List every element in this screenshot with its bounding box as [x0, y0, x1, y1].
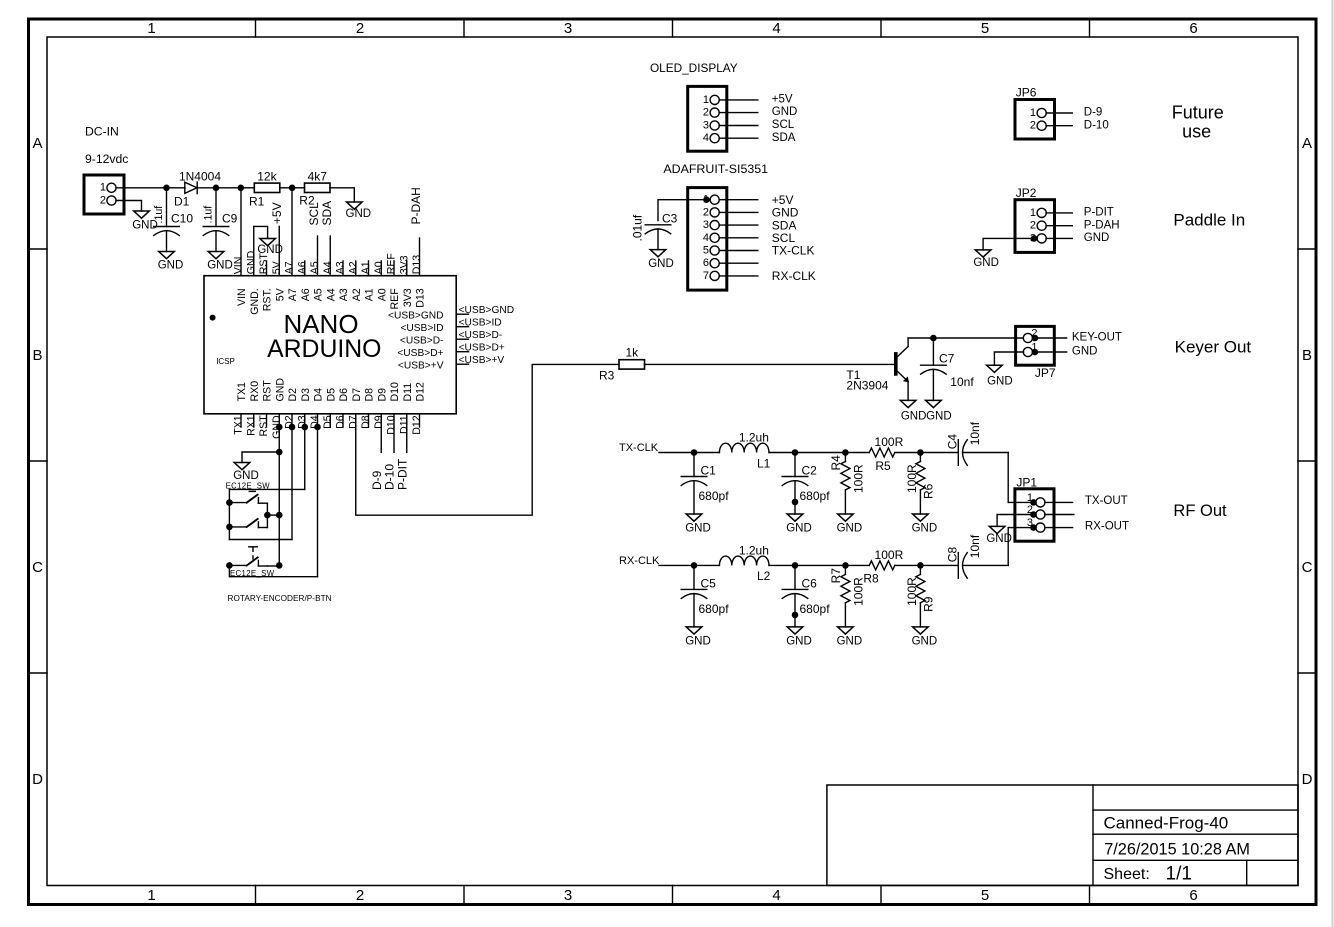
wire nano top pin D13	[411, 238, 427, 308]
svg-text:<USB>ID: <USB>ID	[459, 318, 502, 329]
svg-text:GND: GND	[912, 635, 938, 647]
wire phase A contact down	[266, 503, 268, 515]
connector DC-IN	[84, 125, 128, 215]
text Future use	[1172, 102, 1224, 141]
connector JP6	[1015, 86, 1055, 140]
svg-text:7: 7	[703, 270, 709, 282]
svg-text:680pf: 680pf	[699, 602, 730, 616]
svg-text:L1: L1	[757, 456, 771, 470]
svg-text:D4: D4	[313, 388, 325, 402]
svg-text:A7: A7	[284, 261, 296, 274]
svg-text:RX0: RX0	[249, 381, 261, 402]
svg-text:A4: A4	[322, 261, 334, 274]
svg-text:1/1: 1/1	[1166, 863, 1192, 884]
wire JP1 pin3 from C8	[1008, 524, 1037, 531]
wire OLED pin +5V	[719, 94, 793, 106]
wire SI5351 pin 6	[719, 262, 758, 264]
svg-text:GND: GND	[685, 523, 711, 535]
wire net label D-9	[370, 427, 384, 490]
wire encoder top horizontal	[229, 488, 304, 490]
svg-text:ROTARY-ENCODER/P-BTN: ROTARY-ENCODER/P-BTN	[228, 594, 332, 603]
svg-text:GND: GND	[786, 523, 812, 535]
wire nano top pin GND.	[245, 226, 261, 314]
wire JP2 pin P-DAH	[1046, 219, 1119, 231]
svg-text:C6: C6	[802, 576, 818, 590]
svg-text:RST: RST	[262, 380, 274, 402]
svg-text:D9: D9	[376, 388, 388, 402]
svg-text:<USB>GND: <USB>GND	[388, 310, 443, 321]
wire nano top pin VIN	[233, 188, 249, 306]
ground at JP7 pin1	[987, 365, 1013, 387]
svg-text:GND: GND	[786, 635, 812, 647]
svg-text:D13: D13	[411, 255, 423, 275]
svg-text:<USB>D-: <USB>D-	[459, 330, 503, 341]
svg-text:A0: A0	[376, 288, 388, 301]
svg-text:GND: GND	[901, 410, 927, 422]
wire nano top pin RST	[258, 253, 274, 312]
wire GND branch to ground symbol	[242, 452, 279, 463]
wire D2 net vertical	[291, 427, 293, 540]
wire nano USB pin USBGND	[388, 305, 514, 321]
wire push button to GND net	[267, 562, 282, 569]
svg-text:R5: R5	[875, 459, 891, 473]
svg-text:D-9: D-9	[1084, 107, 1103, 119]
svg-text:D12: D12	[411, 415, 423, 435]
node junction R4 tap	[842, 449, 849, 456]
wire encoder bottom horizontal to D2	[229, 539, 292, 541]
svg-text:R3: R3	[599, 369, 615, 383]
wire encoder left vertical	[228, 489, 230, 539]
svg-text:1: 1	[100, 182, 106, 194]
svg-text:SCL: SCL	[772, 119, 795, 131]
svg-text:10nf: 10nf	[968, 534, 982, 558]
wire SI5351 pin TX-CLK	[719, 244, 814, 258]
svg-text:2: 2	[356, 20, 364, 37]
wire SI5351 pin SDA	[719, 218, 796, 232]
svg-text:5: 5	[981, 20, 989, 37]
svg-text:100R: 100R	[852, 464, 866, 493]
svg-text:A: A	[32, 135, 42, 152]
svg-text:A0: A0	[373, 261, 385, 274]
title block	[827, 785, 1298, 885]
connector SV2 ADAFRUIT-SI5351	[688, 188, 727, 291]
svg-text:A6: A6	[296, 261, 308, 274]
svg-text:D1: D1	[174, 195, 190, 209]
svg-text:D7: D7	[347, 415, 359, 429]
net label SCL	[307, 202, 321, 226]
svg-text:NANO: NANO	[283, 309, 358, 339]
svg-text:6: 6	[1189, 20, 1197, 37]
capacitor C3 .01uf	[631, 211, 678, 249]
svg-text:100R: 100R	[875, 435, 904, 449]
svg-text:C10: C10	[171, 212, 193, 226]
wire SI5351 pin GND	[719, 206, 799, 220]
svg-text:JP2: JP2	[1016, 186, 1037, 200]
svg-text:R9: R9	[921, 596, 935, 612]
svg-text:C9: C9	[222, 212, 238, 226]
wire net label P-DIT	[395, 427, 409, 490]
wire nano bottom pin D3	[296, 388, 312, 429]
capacitor C5 680pf	[681, 565, 729, 627]
ground below nano	[233, 463, 259, 483]
svg-text:C5: C5	[701, 576, 717, 590]
svg-text:<USB>GND: <USB>GND	[459, 305, 514, 316]
svg-text:5V: 5V	[271, 260, 283, 274]
wire nano top pin A7	[284, 188, 300, 301]
svg-text:C: C	[1302, 559, 1313, 576]
wire D4 net vertical	[317, 427, 319, 577]
ground at JP2 pin3	[973, 250, 999, 269]
wire nano bottom pin D12	[411, 382, 427, 435]
node junction C10 tap	[163, 185, 170, 192]
resistor R6 100R	[905, 453, 935, 515]
capacitor C10 .1uf	[153, 188, 193, 252]
svg-text:C7: C7	[939, 352, 955, 366]
wire JP1 pin1 TX-OUT	[1045, 495, 1128, 507]
text TX-CLK	[619, 442, 659, 454]
svg-text:D5: D5	[322, 415, 334, 429]
svg-text:Keyer Out: Keyer Out	[1175, 337, 1252, 356]
wire nano top pin A5	[309, 236, 325, 301]
wire C4 to JP1 pin1	[1007, 453, 1009, 503]
svg-text:R1: R1	[249, 195, 265, 209]
capacitor C6 680pf	[782, 565, 830, 627]
svg-text:D-10: D-10	[1084, 119, 1109, 131]
svg-text:C3: C3	[662, 211, 678, 225]
svg-text:GND: GND	[257, 244, 283, 256]
svg-text:2: 2	[703, 206, 709, 218]
ground at nano GND. pin	[254, 226, 283, 256]
wire SI5351 pin1 to C3	[658, 196, 710, 220]
svg-text:D: D	[32, 771, 43, 788]
svg-text:<USB>D-: <USB>D-	[400, 335, 444, 346]
svg-text:A4: A4	[325, 288, 337, 301]
ground at DC-IN pin2	[132, 211, 158, 232]
svg-text:1: 1	[147, 887, 155, 904]
capacitor C1 680pf	[681, 453, 729, 515]
svg-text:1: 1	[147, 20, 155, 37]
wire nano bottom pin RX1	[245, 381, 261, 436]
svg-text:<USB>D+: <USB>D+	[459, 343, 505, 354]
svg-text:A2: A2	[351, 288, 363, 301]
node junctions below nano	[276, 424, 321, 431]
svg-text:100R: 100R	[875, 548, 904, 562]
svg-text:D6: D6	[338, 388, 350, 402]
wire SI5351 pin RX-CLK	[719, 269, 816, 283]
svg-text:GND.: GND.	[245, 248, 257, 274]
wire JP2 pin3 to ground	[983, 235, 1037, 250]
switch encoder push button	[226, 547, 267, 569]
wire JP1 pin2 to ground	[997, 511, 1037, 526]
wire nano top pin A4	[322, 236, 338, 301]
svg-text:C1: C1	[701, 463, 717, 477]
svg-text:2: 2	[1030, 220, 1036, 232]
wire nano bottom pin D5	[322, 388, 338, 429]
svg-text:R6: R6	[921, 483, 935, 499]
svg-text:D5: D5	[325, 388, 337, 402]
resistor R8 100R	[863, 548, 903, 586]
svg-text:C8: C8	[946, 547, 960, 563]
wire diode to C9 node	[197, 187, 216, 189]
svg-text:use: use	[1182, 122, 1211, 142]
svg-text:GND: GND	[926, 410, 952, 422]
text OLED_DISPLAY	[650, 61, 738, 75]
svg-text:A3: A3	[335, 261, 347, 274]
wire D3 net vertical	[304, 427, 306, 489]
node junction JP7 pin1	[1032, 349, 1039, 356]
wire GND net vertical	[278, 427, 280, 565]
wire OLED pin SDA	[719, 132, 796, 144]
wire nano top pin A0	[373, 261, 389, 301]
svg-text:REF: REF	[386, 253, 398, 275]
op-amp U1 ARDUINO NANO	[204, 276, 456, 414]
ground below C2	[786, 514, 812, 535]
svg-text:P-DAH: P-DAH	[409, 187, 423, 224]
svg-text:D7: D7	[351, 388, 363, 402]
svg-text:D12: D12	[415, 382, 427, 402]
text RF Out	[1173, 502, 1227, 520]
text Paddle In	[1173, 211, 1245, 230]
svg-text:Paddle In: Paddle In	[1173, 211, 1245, 230]
resistor R5 100R	[869, 435, 903, 473]
ground at JP1 pin2	[986, 526, 1012, 545]
svg-text:<USB>+V: <USB>+V	[398, 360, 444, 371]
net label +5V	[270, 202, 284, 224]
ground at T1 emitter	[900, 400, 926, 422]
svg-text:<USB>+V: <USB>+V	[459, 355, 505, 366]
svg-text:D6: D6	[335, 415, 347, 429]
svg-text:100R: 100R	[905, 464, 919, 493]
svg-text:D13: D13	[415, 288, 427, 308]
svg-text:ICSP: ICSP	[216, 357, 235, 366]
wire nano top pin A2	[347, 261, 363, 301]
switch encoder phase A	[226, 491, 267, 506]
wire D7 to keyer R3	[356, 364, 619, 515]
resistor R4 100R	[829, 453, 866, 515]
svg-text:RX-CLK: RX-CLK	[772, 269, 816, 283]
capacitor C2 680pf	[782, 453, 830, 515]
ground below R9	[912, 627, 938, 648]
ground below C1	[685, 514, 711, 535]
resistor R9 100R	[905, 565, 935, 627]
svg-text:ADAFRUIT-SI5351: ADAFRUIT-SI5351	[663, 162, 768, 176]
wire RX-CLK line	[659, 564, 958, 566]
svg-text:ARDUINO: ARDUINO	[267, 336, 381, 363]
wire JP1 pin1 from C4	[1008, 499, 1037, 506]
wire rail to diode	[167, 187, 186, 189]
svg-text:GND: GND	[274, 378, 286, 402]
wire C9 node to VIN node	[216, 187, 241, 189]
svg-text:3: 3	[564, 887, 572, 904]
svg-text:GND: GND	[772, 106, 798, 118]
ground below C3	[648, 250, 674, 270]
svg-text:6: 6	[703, 257, 709, 269]
svg-text:RST.: RST.	[262, 288, 274, 311]
wire JP7 pin1 GND label	[1035, 346, 1098, 358]
resistor R3 1k	[599, 346, 645, 383]
capacitor C7 10nf	[921, 338, 975, 400]
svg-text:GND: GND	[1072, 346, 1098, 358]
node junction VIN tap	[238, 185, 245, 192]
svg-text:EC12E_SW: EC12E_SW	[230, 569, 275, 578]
svg-text:680pf: 680pf	[800, 602, 831, 616]
svg-text:GND: GND	[648, 258, 674, 270]
svg-text:P-DIT: P-DIT	[395, 458, 409, 490]
svg-text:C2: C2	[802, 463, 818, 477]
svg-text:A7: A7	[287, 288, 299, 301]
svg-text:A5: A5	[313, 288, 325, 301]
svg-text:P-DAH: P-DAH	[1084, 219, 1120, 231]
switch encoder phase B	[226, 518, 267, 530]
wire nano top pin A1	[360, 261, 376, 301]
inductor L2 1.2uh	[719, 544, 770, 584]
svg-text:RX-OUT: RX-OUT	[1085, 521, 1129, 533]
wire JP7 pin1 to ground	[994, 352, 1023, 365]
svg-text:1: 1	[1030, 107, 1036, 119]
svg-text:10nf: 10nf	[950, 375, 974, 389]
svg-text:4: 4	[703, 132, 709, 144]
svg-text:REF: REF	[389, 288, 401, 310]
node junction R9 tap	[917, 562, 924, 569]
svg-text:.1uf: .1uf	[203, 206, 215, 224]
svg-text:R4: R4	[829, 455, 843, 471]
wire JP1 pin2 right	[1045, 514, 1074, 516]
svg-text:D8: D8	[360, 415, 372, 429]
capacitor C8 10nf	[946, 534, 1009, 578]
svg-text:6: 6	[1189, 887, 1197, 904]
svg-text:JP6: JP6	[1016, 86, 1037, 100]
svg-text:A1: A1	[360, 261, 372, 274]
svg-text:.1uf: .1uf	[153, 206, 165, 224]
svg-text:100R: 100R	[905, 577, 919, 606]
node junction C5 tap	[691, 562, 698, 569]
wire nano bottom pin RST	[258, 380, 274, 437]
text ROTARY-ENCODER/P-BTN	[228, 594, 332, 603]
diode D1 1N4004	[174, 170, 221, 209]
svg-text:TX1: TX1	[236, 382, 248, 402]
svg-text:RST: RST	[258, 415, 270, 437]
svg-text:+5V: +5V	[772, 94, 793, 106]
svg-text:3: 3	[564, 20, 572, 37]
svg-text:+5V: +5V	[270, 202, 284, 224]
svg-text:VIN: VIN	[236, 288, 248, 306]
wire nano top pin REF	[386, 253, 402, 310]
svg-text:JP1: JP1	[1016, 475, 1037, 489]
node junction C7 tap	[930, 335, 937, 342]
wire SI5351 pin +5V	[719, 193, 793, 207]
ground below R7	[837, 627, 863, 648]
svg-text:1.2uh: 1.2uh	[739, 544, 769, 558]
svg-text:A1: A1	[364, 288, 376, 301]
svg-text:L2: L2	[757, 569, 771, 583]
svg-text:680pf: 680pf	[699, 489, 730, 503]
capacitor C9 .1uf	[203, 188, 238, 252]
svg-text:12k: 12k	[257, 170, 277, 184]
svg-text:B: B	[32, 347, 42, 364]
svg-text:JP7: JP7	[1035, 366, 1056, 380]
node junction C2 tap	[792, 449, 799, 456]
svg-text:D9: D9	[373, 415, 385, 429]
svg-text:R8: R8	[863, 571, 879, 585]
wire nano top pin 3V3	[398, 255, 414, 307]
wire JP6 pin1 D-9	[1046, 107, 1102, 119]
wire JP7 pin2 KEY-OUT	[1035, 332, 1122, 344]
wire node to R2	[292, 187, 304, 189]
wire common to GND net	[267, 514, 279, 516]
svg-text:Future: Future	[1172, 102, 1224, 122]
svg-text:C4: C4	[946, 434, 960, 450]
svg-text:1.2uh: 1.2uh	[739, 431, 769, 445]
wire T1 collector rail to JP7	[908, 337, 1023, 339]
svg-text:<USB>D+: <USB>D+	[397, 348, 443, 359]
text EC12E_SW bottom	[230, 569, 275, 578]
wire nano bottom pin D2	[284, 388, 300, 429]
svg-text:680pf: 680pf	[800, 489, 831, 503]
wire phase B contact up	[266, 515, 268, 527]
node junction A7/R2	[289, 185, 296, 192]
transistor T1 2N3904	[846, 338, 909, 400]
svg-text:GND: GND	[685, 635, 711, 647]
svg-text:D11: D11	[402, 383, 414, 402]
svg-text:D10: D10	[386, 415, 398, 435]
node junction C1 tap	[691, 449, 698, 456]
svg-text:D8: D8	[364, 388, 376, 402]
svg-text:4: 4	[703, 232, 709, 244]
svg-text:2: 2	[100, 194, 106, 206]
svg-text:SDA: SDA	[320, 201, 334, 226]
svg-text:4k7: 4k7	[308, 170, 328, 184]
svg-text:GND: GND	[233, 470, 259, 482]
svg-text:3: 3	[703, 219, 709, 231]
svg-text:A: A	[1302, 135, 1312, 152]
ground after R2	[346, 202, 372, 220]
svg-text:GND: GND	[346, 208, 372, 220]
wire JP2 pin P-DIT	[1046, 207, 1114, 219]
wire nano bottom pin D9	[373, 388, 389, 429]
text RX-CLK	[619, 555, 660, 567]
svg-text:D3: D3	[300, 388, 312, 402]
svg-text:D: D	[1302, 771, 1313, 788]
svg-text:D11: D11	[398, 415, 410, 434]
wire nano bottom pin D4	[309, 388, 325, 429]
node junction on GND net	[276, 512, 283, 519]
capacitor C4 10nf	[946, 421, 1009, 465]
wire nano bottom pin D8	[360, 388, 376, 429]
ground below R6	[912, 514, 938, 535]
svg-text:3V3: 3V3	[402, 288, 414, 307]
svg-text:D2: D2	[287, 388, 299, 402]
wire nano bottom pin D10	[386, 382, 402, 435]
ground below C6	[786, 627, 812, 648]
svg-text:2: 2	[356, 887, 364, 904]
wire C8 to JP1 pin3	[1007, 528, 1009, 566]
node junction encoder common	[264, 512, 271, 519]
svg-text:TX-CLK: TX-CLK	[619, 442, 659, 454]
ground below C9	[207, 252, 233, 272]
svg-text:2: 2	[703, 107, 709, 119]
svg-text:5: 5	[703, 245, 709, 257]
svg-text:C: C	[32, 559, 43, 576]
svg-text:GND: GND	[207, 260, 233, 272]
svg-text:4: 4	[772, 20, 780, 37]
svg-text:Sheet:: Sheet:	[1104, 866, 1150, 883]
svg-text:D10: D10	[389, 382, 401, 402]
node junction C6 tap	[792, 562, 799, 569]
wire nano top pin A6	[296, 261, 312, 301]
resistor R2 4k7	[299, 170, 330, 208]
wire R1 to A7 node	[280, 187, 292, 189]
wire nano USB pin USBID	[400, 318, 501, 334]
